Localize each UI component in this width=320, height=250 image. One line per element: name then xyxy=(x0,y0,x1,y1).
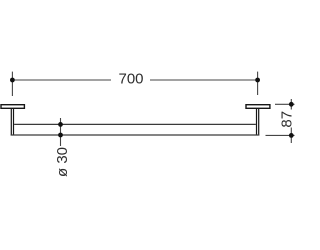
bar bottom line xyxy=(11,134,260,136)
extension line bottom (87) xyxy=(266,134,295,136)
dimension dot dia30 bottom xyxy=(58,133,63,138)
dimension dot dia30 top xyxy=(58,122,63,127)
dimension dot 87 bottom xyxy=(289,133,294,138)
dimension dot 87 top xyxy=(289,102,294,107)
dimension line 700 left segment xyxy=(12,79,111,81)
left wall plate xyxy=(1,105,24,109)
left post xyxy=(11,109,13,136)
dimension line 87 lower segment xyxy=(290,128,292,144)
dimension line 700 right segment xyxy=(150,79,258,81)
dimension line dia30 xyxy=(60,118,62,146)
svg-text:ø 30: ø 30 xyxy=(54,147,71,177)
right post xyxy=(257,109,259,136)
svg-text:700: 700 xyxy=(118,71,143,88)
extension line right (700) xyxy=(257,72,259,95)
dimension dot 700 right xyxy=(255,78,260,83)
dimension line 87 upper segment xyxy=(290,99,292,110)
bar top line xyxy=(14,123,256,125)
dimension dot 700 left xyxy=(10,78,15,83)
right wall plate xyxy=(246,105,270,109)
extension line left (700) xyxy=(11,72,13,96)
svg-text:87: 87 xyxy=(278,111,295,128)
extension line top (87) xyxy=(275,103,295,105)
